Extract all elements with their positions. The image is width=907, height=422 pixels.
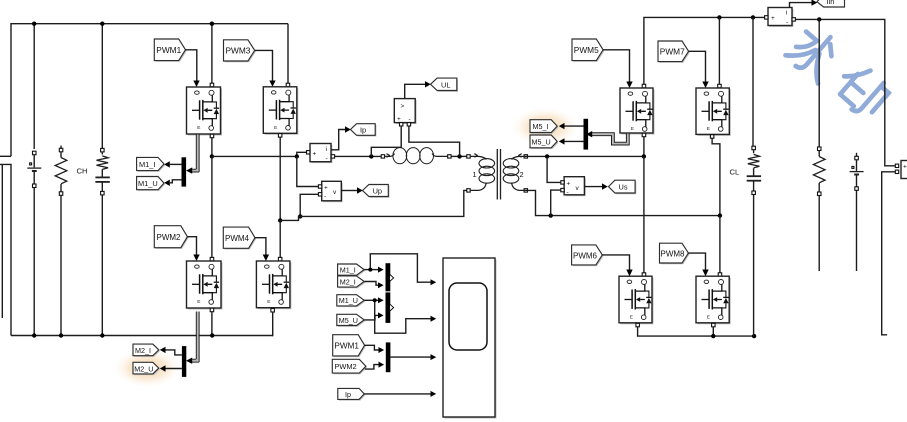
wire Iin output to right rail <box>795 19 895 165</box>
MOSFET M1 <box>187 87 223 136</box>
wire top bus right <box>644 17 766 85</box>
inductor L <box>381 148 467 164</box>
svg-text:-: - <box>324 193 326 200</box>
From tag M2_I (scope) <box>338 276 366 288</box>
wire Up output to tag <box>341 190 357 192</box>
svg-text:+: + <box>313 151 317 158</box>
svg-text:PWM1: PWM1 <box>334 342 359 351</box>
voltage measurement block Us <box>561 177 586 197</box>
node dot bottom bus / battery <box>32 333 36 337</box>
wire M8 source to bottom bus <box>712 323 716 327</box>
svg-text:M1_I: M1_I <box>340 266 356 275</box>
Goto tag Ip <box>350 124 376 137</box>
svg-text:M2_U: M2_U <box>134 364 153 373</box>
measurement double wire M5.m <box>586 131 629 145</box>
battery B2 (right DC source, floating) <box>850 153 864 271</box>
demux D5 <box>584 119 589 150</box>
wire Up- from return wire <box>300 194 318 216</box>
wire M3 source down leg B <box>278 134 282 138</box>
From tag PWM1 (scope) <box>333 335 366 357</box>
svg-text:UL: UL <box>441 80 450 89</box>
wire Us output to tag <box>584 186 602 188</box>
wire top bus to M1 drain <box>211 24 213 84</box>
From tag PWM2 (scope) <box>332 359 367 374</box>
svg-text:i: i <box>786 10 787 17</box>
highlight glow around M5_I <box>512 108 578 146</box>
From tag PWM4 <box>223 227 256 249</box>
node dot bottom bus / CL <box>752 334 756 338</box>
svg-text:PWM7: PWM7 <box>660 47 685 57</box>
svg-text:M5_U: M5_U <box>339 316 358 325</box>
wire M5 source to node C <box>642 133 646 137</box>
node D dot (leg B midpoint tap) <box>718 213 722 217</box>
wire PWM1 to M1 gate <box>186 50 197 81</box>
scope block <box>443 258 497 419</box>
svg-text:-: - <box>567 189 569 196</box>
svg-text:-: - <box>409 116 411 123</box>
wire PWM4 to M4 gate <box>255 238 266 255</box>
wire top bus end to M3 drain <box>287 24 289 84</box>
svg-text:PWM8: PWM8 <box>661 250 686 259</box>
wire PWM2 to M2 gate <box>187 237 196 255</box>
From tag PWM5 <box>572 39 604 62</box>
wire right edge block lower port down <box>882 172 896 335</box>
wire M1 source to mid node A <box>210 134 214 138</box>
node dot Up+ tap <box>295 154 299 158</box>
Goto tag M5_U <box>530 135 558 149</box>
node dot UL- tap <box>457 154 461 158</box>
Goto tag Us <box>609 180 637 194</box>
transformer T1 <box>467 149 528 200</box>
svg-text:M1_U: M1_U <box>138 179 158 188</box>
node C dot <box>642 154 646 158</box>
wire PWM6 to M6 gate <box>602 255 629 270</box>
wire bottom bus left <box>11 335 273 337</box>
svg-text:M5_U: M5_U <box>532 138 551 147</box>
polarity mark winding 2 <box>518 154 521 158</box>
node dot top bus / CL <box>751 15 755 19</box>
wire left edge stub lower <box>0 164 11 335</box>
From tag PWM8 <box>660 243 690 264</box>
mux A <box>386 263 391 291</box>
svg-text:+: + <box>397 116 401 123</box>
svg-text:PWM4: PWM4 <box>225 234 250 243</box>
RC branch CL <box>747 17 761 336</box>
Goto tag M1_I <box>137 157 166 171</box>
node A dot (leg A midpoint) <box>210 154 214 158</box>
svg-text:M5_I: M5_I <box>533 122 549 131</box>
wire M7 source jog down to node D <box>710 135 714 139</box>
resistor R1 (left, floating top) <box>55 146 67 336</box>
voltage measurement block UL <box>394 99 416 126</box>
wire PWM3 to M3 gate <box>255 50 273 81</box>
node dot Us+ tap <box>545 154 549 158</box>
wire transformer sec bottom return <box>528 190 720 215</box>
svg-text:+: + <box>771 15 775 22</box>
measurement double wire M1.m <box>186 135 199 174</box>
wire left edge vertical <box>1 164 3 318</box>
svg-text:+: + <box>903 164 907 171</box>
wire Ip output to inductor <box>335 155 382 157</box>
From tag M1_I (scope) <box>338 264 366 276</box>
wire Iin i-output to tag <box>790 3 812 8</box>
wire PWM2 to mux C <box>365 365 379 370</box>
svg-text:Ip: Ip <box>360 125 366 134</box>
wire D5 out1 to M5_I <box>565 125 584 127</box>
wire node A down to M2 drain <box>211 156 213 258</box>
svg-text:M2_I: M2_I <box>135 346 151 355</box>
node B dot (leg B midpoint tap) <box>278 218 282 222</box>
svg-text:CL: CL <box>730 168 740 177</box>
svg-text:Ip: Ip <box>345 390 351 399</box>
mux B <box>386 292 391 323</box>
svg-text:M1_U: M1_U <box>339 296 358 305</box>
From tag PWM6 <box>572 245 604 266</box>
wire UL output to tag <box>405 84 425 98</box>
Goto tag Up <box>363 185 390 198</box>
Goto tag M2_U <box>133 362 160 375</box>
wire D1 out1 to M1_I <box>170 163 182 165</box>
svg-text:+: + <box>567 180 571 187</box>
mux C <box>386 342 391 372</box>
wire transformer sec top to node C <box>528 155 644 157</box>
svg-text:2: 2 <box>520 170 524 179</box>
wire D2 out1 to M2_I <box>166 350 182 355</box>
wire M5_U to mux B <box>364 315 378 320</box>
wire M2 source to bottom bus <box>210 308 214 312</box>
svg-text:Up: Up <box>373 186 382 195</box>
wire M1_I to mux A and scope in1 <box>364 269 378 271</box>
right edge measurement block (clipped) <box>895 161 907 179</box>
svg-text:M2_I: M2_I <box>340 277 356 286</box>
voltage measurement block Up <box>318 181 342 202</box>
battery B1 (DC source) <box>27 24 41 336</box>
From tag Ip (scope) <box>338 388 366 400</box>
wire UL- to right inductor node <box>409 126 460 156</box>
polarity mark inductor <box>387 154 390 158</box>
wire PWM8 to M8 gate <box>688 253 705 270</box>
wire node D to M8 drain <box>719 216 721 274</box>
wire Us- tap <box>551 190 561 216</box>
svg-text:M1_I: M1_I <box>139 160 155 169</box>
current measurement block Iin <box>765 8 796 27</box>
demux D2 <box>182 346 186 377</box>
MOSFET M7 <box>696 17 731 135</box>
svg-text:+: + <box>324 185 328 192</box>
node dot Up- tap <box>298 214 302 218</box>
wire M4 source to bottom bus <box>271 309 275 313</box>
From tag PWM2 <box>154 226 188 249</box>
wire M6 source to bottom bus right <box>636 323 640 327</box>
wire UL+ to left inductor node <box>371 126 401 156</box>
wire top bus left <box>11 24 288 157</box>
svg-text:-: - <box>326 156 328 163</box>
wire node C to M6 drain <box>643 156 645 273</box>
svg-text:>: > <box>401 103 405 110</box>
node dot bottom bus / CH <box>100 333 104 337</box>
wire mux C output to scope in3 <box>390 356 430 358</box>
MOSFET M3 <box>263 87 298 135</box>
highlight glow around M2_U <box>114 349 180 387</box>
svg-text:PWM1: PWM1 <box>156 45 181 55</box>
MOSFET M6 <box>619 276 654 324</box>
wire Ip to scope in4 <box>364 393 430 395</box>
Goto tag M5_I <box>530 120 558 134</box>
wire D1 out2 to M1_U <box>170 180 182 183</box>
wire PWM1 to mux C <box>365 345 379 350</box>
svg-text:i: i <box>326 146 327 153</box>
node dot top bus / CH <box>100 22 104 26</box>
svg-text:PWM2: PWM2 <box>335 362 357 371</box>
wire Us+ tap <box>547 156 561 182</box>
MOSFET M8 <box>696 276 731 324</box>
MOSFET M4 <box>256 261 291 309</box>
Goto tag UL <box>431 78 459 92</box>
From tag PWM7 <box>658 41 690 63</box>
node dot R2 feed <box>817 17 821 21</box>
Goto tag M2_I <box>133 344 160 357</box>
MOSFET M2 <box>187 261 223 310</box>
wire Up+ from node <box>297 156 319 186</box>
node dot top bus / leg B <box>717 15 721 19</box>
wire D5 out2 to M5_U <box>565 140 584 142</box>
svg-text:-: - <box>786 20 788 27</box>
wire PWM7 to M7 gate <box>689 51 706 82</box>
From tag PWM1 <box>154 39 186 62</box>
wire primary return (node B to transformer) <box>280 190 467 220</box>
svg-text:Iin: Iin <box>827 0 835 6</box>
wire D2 out2 to M2_U <box>166 368 182 370</box>
resistor R2 (right) <box>813 19 825 271</box>
wire node B down to M4 drain <box>279 220 281 258</box>
node dot Us- tap <box>549 213 553 217</box>
svg-text:PWM5: PWM5 <box>574 45 599 55</box>
svg-text:Us: Us <box>619 183 628 192</box>
wire Ip i-output to tag <box>331 130 345 150</box>
wire M2_I to mux A <box>364 282 378 286</box>
wire M1_U to mux B and scope in2 <box>364 299 378 301</box>
Goto tag Iin (clipped at top) <box>817 0 845 7</box>
Goto tag M1_U <box>137 177 166 191</box>
MOSFET M5 <box>620 84 655 134</box>
From tag M5_U (scope) <box>337 314 366 326</box>
wire left edge stub upper <box>0 155 11 157</box>
svg-text:PWM3: PWM3 <box>226 46 251 56</box>
demux D1 <box>182 157 187 186</box>
wire node A to Ip meter <box>212 152 307 156</box>
From tag PWM3 <box>224 40 256 62</box>
svg-text:CH: CH <box>77 167 88 176</box>
svg-text:PWM6: PWM6 <box>573 251 598 260</box>
node dot bottom bus / R1 <box>59 333 63 337</box>
current measurement block Ip <box>307 144 335 164</box>
node dot top bus / battery <box>32 22 36 26</box>
svg-text:1: 1 <box>473 170 477 179</box>
svg-text:PWM2: PWM2 <box>157 233 182 242</box>
wire PWM5 to M5 gate <box>603 50 629 82</box>
From tag M1_U (scope) <box>337 295 366 307</box>
node dot bottom bus / M8 <box>711 334 715 338</box>
RC branch CH <box>95 24 109 336</box>
measurement double wire M2.m <box>186 312 199 364</box>
watermark 水印 <box>785 22 892 124</box>
polarity mark winding 1 <box>474 154 477 158</box>
